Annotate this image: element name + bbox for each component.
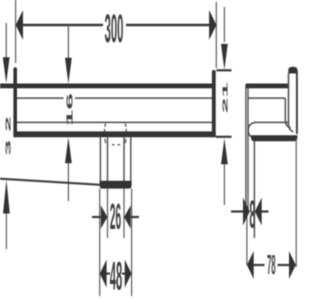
svg-text:26: 26 (110, 196, 121, 237)
svg-text:32: 32 (4, 108, 12, 155)
dimension line 300 (22, 24, 104, 26)
floor line sloped (0, 179, 101, 185)
svg-text:48: 48 (110, 254, 122, 299)
foot outer right line (130, 137, 132, 181)
wire below 32 arrow (5, 214, 7, 250)
svg-text:16: 16 (65, 93, 74, 126)
arrow down 21 (221, 44, 228, 70)
tube right edge (296, 71, 298, 134)
dimension line 32 top (5, 23, 7, 58)
arrow down 32 (3, 57, 10, 83)
wire below 16 arrow (67, 163, 69, 201)
bottom bar left rounded cap (248, 122, 255, 136)
extension lines 26 (107, 189, 109, 238)
right view top thick wall (246, 84, 288, 89)
arrow pointing left at 48 left (100, 260, 107, 288)
extension line 78 right (295, 139, 297, 267)
right view right leg (253, 138, 255, 238)
arrow up 32 (3, 180, 10, 214)
arrow pointing right at 8 (243, 198, 250, 226)
svg-text:300: 300 (105, 7, 124, 52)
profile inner line B (17, 121, 212, 123)
dimension 8 stub right (262, 210, 269, 212)
arrow pointing left at 8 (255, 198, 262, 226)
stub 21 top (217, 69, 232, 71)
dimension 48 line right segment (122, 273, 125, 275)
dimension 48 line left segment (106, 273, 110, 275)
arrow up 16 (65, 137, 72, 163)
profile bottom thick wall (13, 131, 215, 137)
hidden hole dashed ellipse (105, 124, 127, 145)
dimension 8 stub left (231, 210, 243, 212)
stub line 32 top reference (0, 84, 14, 89)
dimension 78 line right segment (278, 264, 290, 266)
foot outer left line (99, 137, 101, 181)
profile left end tab (13, 67, 17, 137)
arrow up 21 (221, 138, 228, 164)
arrow pointing right at 48 right (125, 260, 132, 288)
svg-text:78: 78 (267, 249, 276, 280)
extension lines 48 (99, 189, 101, 296)
tube top cap (288, 67, 297, 74)
dimension 21 top line (223, 7, 225, 42)
arrow pointing right at 26 left (101, 205, 108, 228)
arrow right of 300 (209, 10, 216, 40)
bottom bar top line (255, 121, 289, 123)
stub 21 bottom (216, 136, 232, 138)
dimension line 16 hanging (67, 26, 69, 58)
right view inner line A (248, 97, 285, 99)
svg-text:21: 21 (221, 82, 229, 113)
arrow pointing left at 78 left (247, 251, 254, 279)
foot bottom plate (100, 181, 132, 189)
dimension 78 line left segment (254, 264, 265, 266)
profile top thick wall (17, 84, 213, 89)
arrow down 16 (65, 58, 72, 84)
bottom bar thick fill (251, 135, 297, 141)
dimension 26 stub right (131, 216, 139, 218)
svg-text:8: 8 (249, 194, 255, 238)
wire extension line right of 300 dim (215, 2, 217, 68)
foot neck right line (123, 137, 125, 181)
right view left wall outer line (245, 85, 247, 215)
arrow pointing right at 78 right (289, 251, 296, 279)
arrow left of 300 (16, 10, 23, 40)
wire extension line left of 300 dim (15, 0, 17, 63)
wire below 21 arrow (223, 164, 225, 205)
right view inner right wall with curve (285, 98, 291, 128)
tube left edge (289, 73, 294, 132)
profile right end tab (212, 70, 216, 137)
foot neck left line (107, 137, 109, 181)
arrow pointing left at 26 right (124, 205, 131, 228)
right view left wall inner line (247, 88, 249, 214)
profile inner line A (17, 97, 64, 99)
right view left leg extension to 78 (246, 214, 248, 265)
dimension 26 stub left (92, 216, 101, 218)
